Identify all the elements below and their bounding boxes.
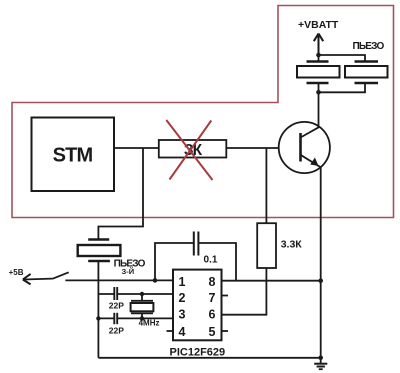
svg-text:6: 6 xyxy=(209,308,216,322)
svg-text:3: 3 xyxy=(179,308,186,322)
svg-text:+VBATT: +VBATT xyxy=(298,19,339,31)
node junction at +VBATT rail xyxy=(316,53,321,58)
Q1 emitter arrowhead xyxy=(310,158,318,167)
svg-text:1: 1 xyxy=(179,275,186,289)
wire R2 bottom to U2 pin6 xyxy=(222,268,267,315)
wire branch from STM output down to piezo BZ3 xyxy=(98,148,143,239)
ground symbol xyxy=(314,358,327,369)
svg-text:2: 2 xyxy=(179,291,186,305)
piezo BZ2 (right) xyxy=(319,62,388,93)
svg-text:22Р: 22Р xyxy=(109,301,124,311)
wire STM to R1 xyxy=(114,147,159,149)
wire U2 pin8 to emitter rail (VSS) xyxy=(222,280,321,282)
wire R1 to Q1 base xyxy=(226,147,278,149)
piezo BZ3 (3rd) xyxy=(78,240,121,262)
+VBATT arrow up xyxy=(314,34,323,56)
svg-text:З-Й: З-Й xyxy=(122,267,135,276)
node junction crystal top xyxy=(140,292,144,296)
wire junction up to C1 xyxy=(155,243,194,280)
block U1 STM xyxy=(32,118,115,192)
wire emitter down xyxy=(320,168,322,281)
wire VSS rail down to ground xyxy=(320,281,322,358)
svg-text:8: 8 xyxy=(209,275,216,289)
svg-text:ПЬЕЗО: ПЬЕЗО xyxy=(353,41,385,52)
svg-text:5: 5 xyxy=(209,325,216,339)
capacitor C3 22P xyxy=(114,313,117,324)
svg-text:22Р: 22Р xyxy=(109,325,124,335)
wire BZ3 down the left rail to bottom xyxy=(97,261,99,358)
node junction VSS/emitter xyxy=(318,278,323,283)
red X deletion mark over R1 xyxy=(166,120,212,180)
node junction VDD xyxy=(153,278,158,283)
wire from junction to right piezo xyxy=(319,55,366,61)
svg-text:0.1: 0.1 xyxy=(204,255,218,266)
piezo BZ1 (left) xyxy=(297,55,340,92)
wire U2 pin2 to C2 xyxy=(98,293,173,295)
wire junction to transistor collector xyxy=(318,92,320,127)
svg-text:STM: STM xyxy=(53,145,93,167)
wire +5V rail to U2 pin1 xyxy=(65,279,173,281)
wire C1 to VSS rail xyxy=(198,243,236,281)
pin 4 stub wire xyxy=(167,330,174,332)
svg-text:3.3К: 3.3К xyxy=(281,239,303,251)
node junction crystal bottom xyxy=(140,316,144,320)
node junction at ground xyxy=(318,356,323,361)
pin 7 stub wire xyxy=(222,295,229,297)
switch SW1 (+5V feed, open) xyxy=(23,272,69,284)
capacitor C1 0.1 xyxy=(194,232,199,256)
wire U2 pin3 to C3 xyxy=(98,317,173,319)
svg-text:+5В: +5В xyxy=(9,268,24,277)
pin 5 stub wire xyxy=(222,330,229,332)
capacitor C2 22P xyxy=(114,287,117,300)
resistor R1 ЗК (crossed out) xyxy=(159,140,227,158)
resistor R2 3.3К xyxy=(257,223,276,268)
crystal Y1 4MHz xyxy=(131,294,154,318)
red highlight outline (stepped box) xyxy=(12,6,394,218)
svg-text:PIC12F629: PIC12F629 xyxy=(170,347,226,359)
wire Q1 base junction down to R2 xyxy=(265,148,267,223)
node junction left rail xyxy=(96,316,100,320)
svg-text:4: 4 xyxy=(179,325,186,339)
wire bottom rail xyxy=(98,357,320,359)
svg-text:7: 7 xyxy=(209,291,216,305)
IC U2 PIC12F629 xyxy=(173,270,222,341)
node junction below piezos xyxy=(316,90,321,95)
transistor Q1 (NPN) xyxy=(279,122,330,173)
